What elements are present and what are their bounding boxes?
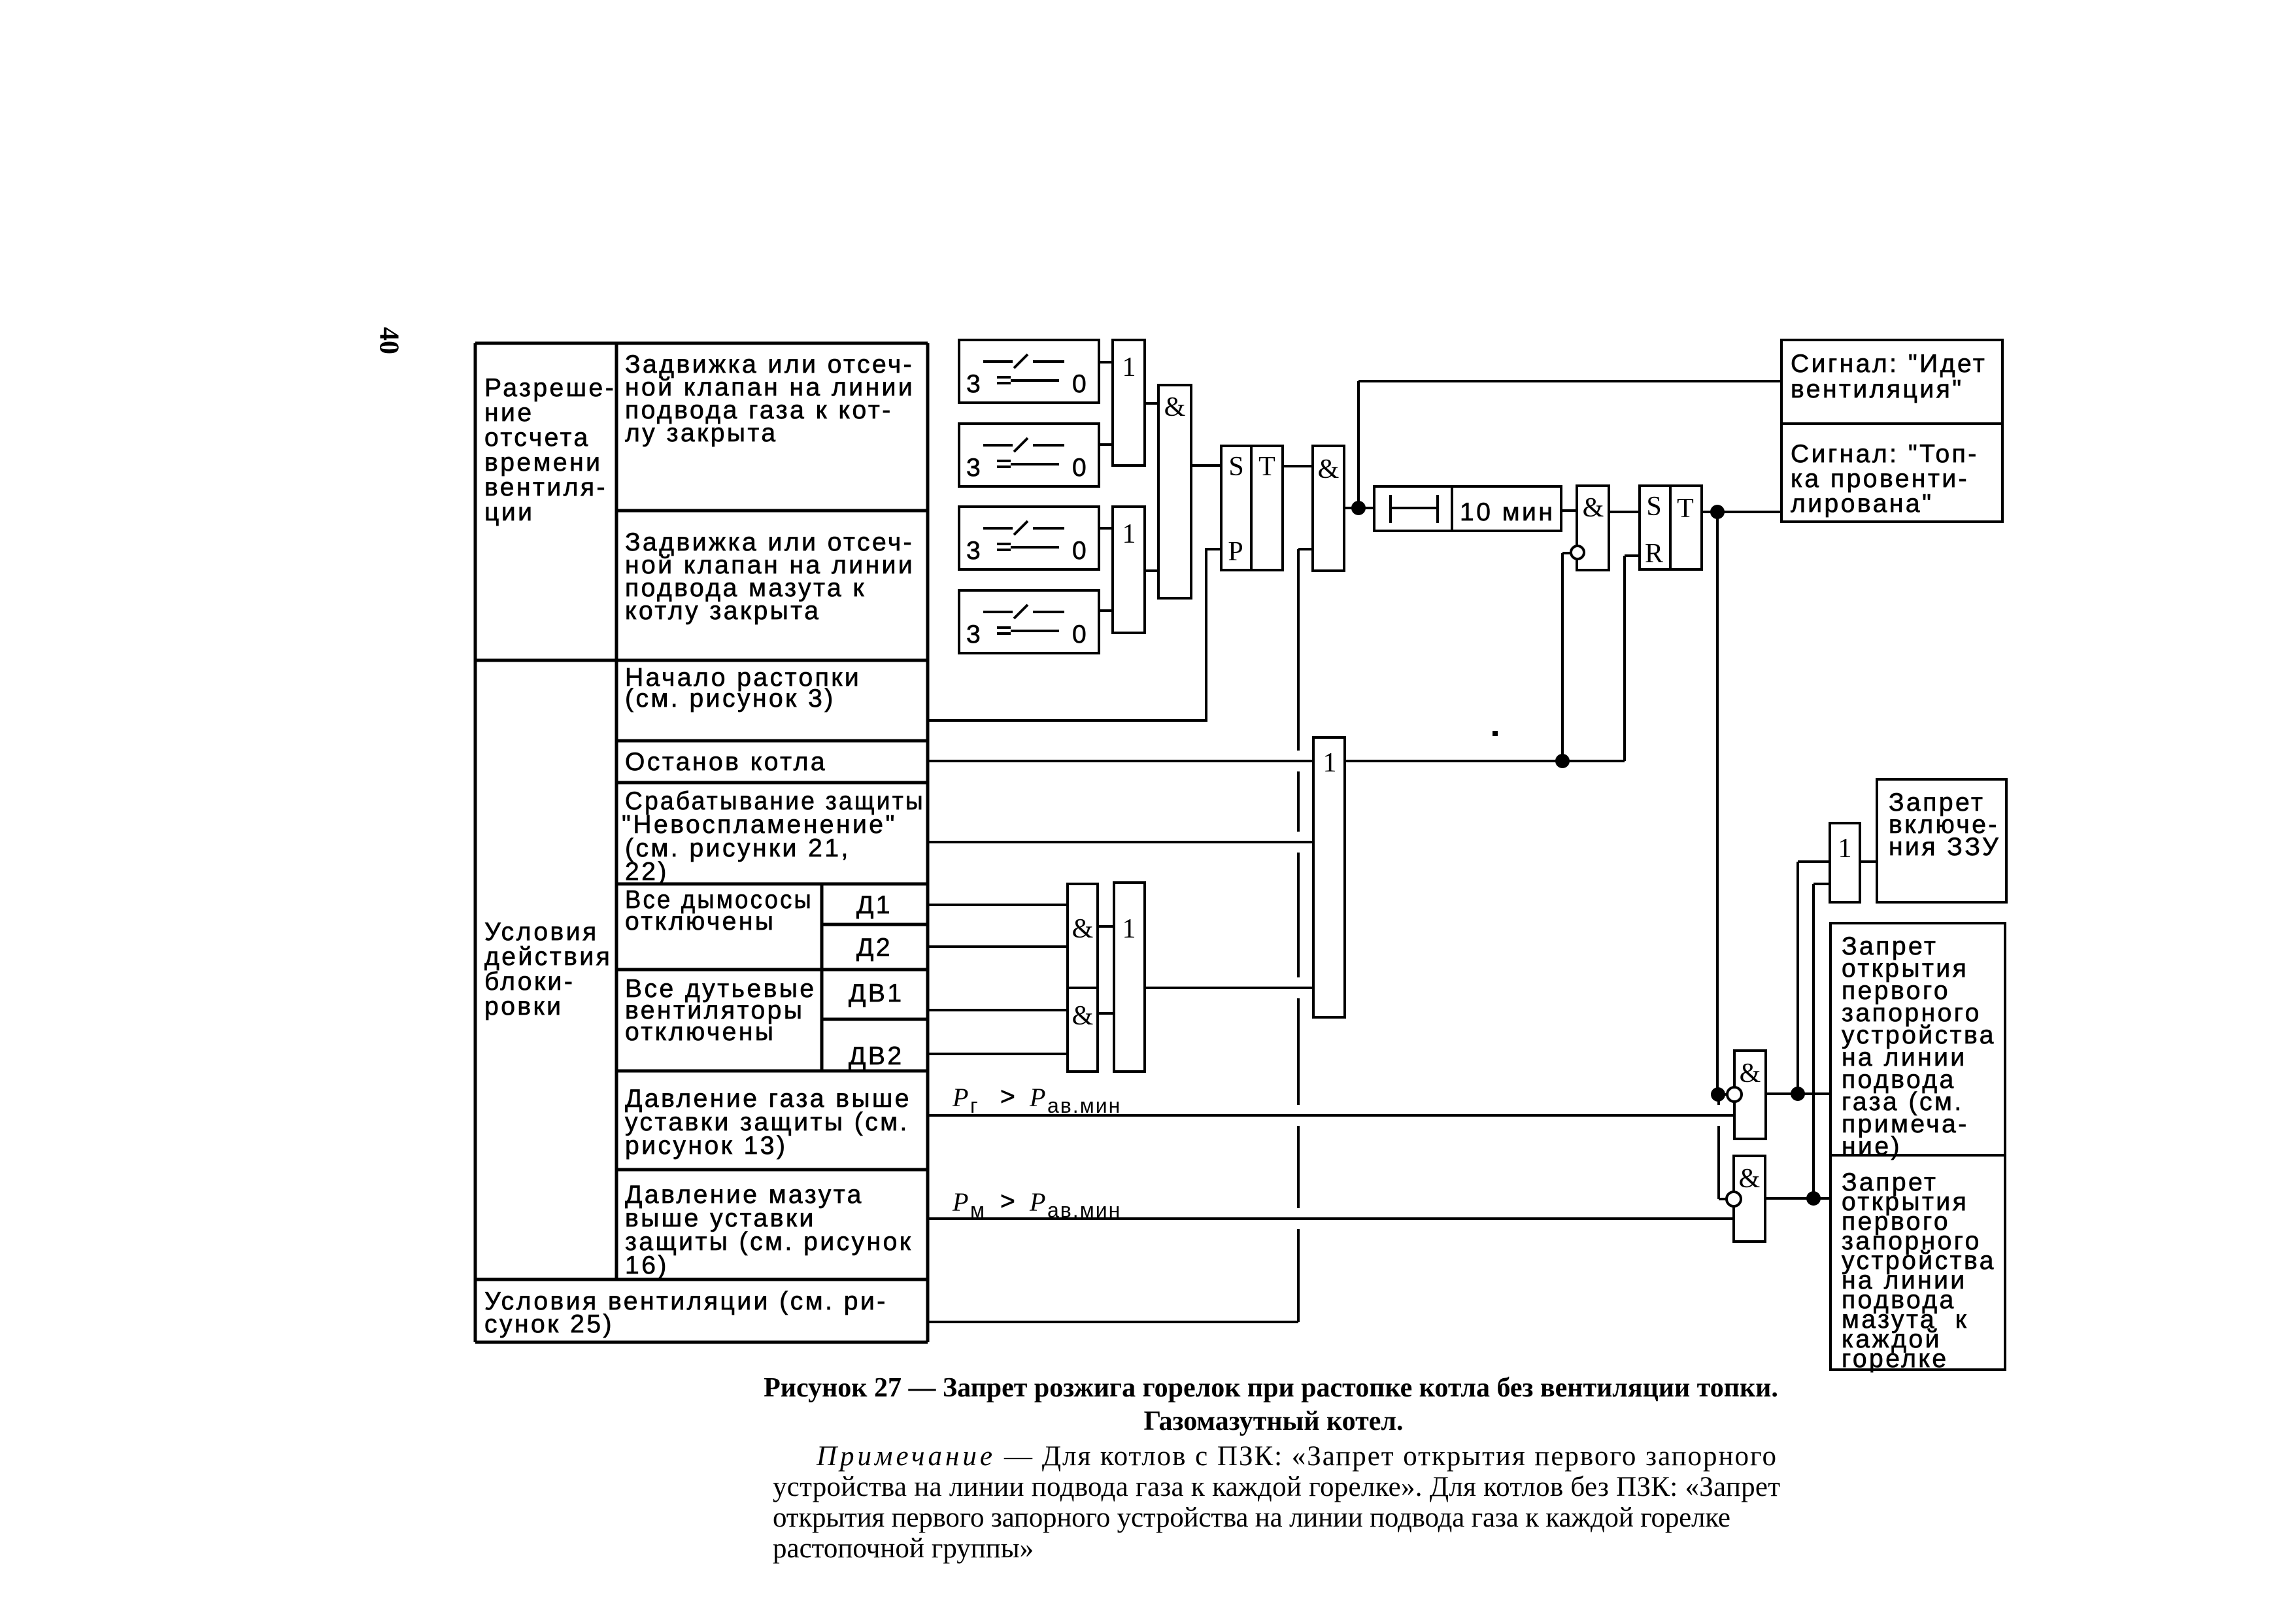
svg-text:S: S (1228, 452, 1243, 482)
svg-text:3: 3 (966, 537, 983, 565)
inverted input circle of DD10 (1727, 1087, 1742, 1102)
svg-text:1: 1 (1122, 519, 1136, 549)
cell: Останов котла (625, 748, 827, 776)
svg-text:ния ЗЗУ: ния ЗЗУ (1889, 833, 2000, 861)
svg-text:времени: времени (484, 448, 602, 477)
valve symbol contacts B1 (966, 354, 1088, 398)
svg-text:R: R (1645, 539, 1663, 569)
wire DD10 output (1766, 1092, 1830, 1095)
OR gate DD1 (gas valves) (1113, 340, 1145, 465)
svg-text:1: 1 (1323, 748, 1337, 778)
svg-text:ДВ1: ДВ1 (849, 979, 904, 1007)
svg-text:1: 1 (1122, 352, 1136, 382)
svg-text:&: & (1740, 1058, 1761, 1089)
valve symbol contacts B4 (966, 605, 1088, 649)
output box Запрет открытия первого запорного устройства газа (1830, 923, 2005, 1155)
svg-text:Рисунок 27 — Запрет розжига го: Рисунок 27 — Запрет розжига горелок при … (764, 1373, 1778, 1403)
svg-text:действия: действия (484, 943, 612, 971)
junction node on DD10 output (1791, 1087, 1805, 1101)
figure caption line 1 (764, 1373, 1778, 1403)
wire ДВ1 input (928, 1009, 1068, 1011)
valve symbol contacts B3 (966, 521, 1088, 565)
wire ДВ2 input (928, 1053, 1068, 1055)
svg-text:3: 3 (966, 454, 983, 482)
label P of T1 (1228, 537, 1243, 567)
wire DD9 out to DD6 (1145, 987, 1313, 989)
svg-text:вентиля-: вентиля- (484, 473, 607, 501)
valve position sensor box B3 (959, 507, 1099, 569)
label T of T2 (1677, 494, 1694, 524)
wire Pм to DD11 (928, 1217, 1734, 1220)
row: Условия вентиляции (484, 1287, 888, 1338)
svg-text:&: & (1164, 392, 1186, 422)
OR gate DD6 (blocking conditions) (1313, 737, 1345, 1017)
svg-text:P: P (1029, 1083, 1045, 1112)
label T of T1 (1258, 452, 1275, 482)
label & of DD11 (1739, 1164, 1761, 1194)
label 1 of DD6 (1323, 748, 1337, 778)
AND gate DD5 (1577, 486, 1609, 570)
wire node down to DD11 circle (1719, 1094, 1726, 1199)
OR gate DD9 (1114, 883, 1145, 1072)
svg-text:открытия первого запорного уст: открытия первого запорного устройства на… (773, 1502, 1730, 1533)
svg-text:Д2: Д2 (856, 934, 892, 962)
label Pг > Pав.мин (952, 1083, 1121, 1117)
svg-text:&: & (1739, 1164, 1761, 1194)
junction node on DD11 output (1806, 1191, 1821, 1206)
timer block 10 мин (1374, 486, 1561, 531)
label ДВ2 (849, 1042, 904, 1070)
svg-text:лу закрыта: лу закрыта (625, 419, 778, 447)
label & of DD8 upper (1072, 914, 1094, 944)
wire Д1 input (928, 904, 1068, 906)
svg-text:S: S (1646, 492, 1661, 522)
wire node up to signal Идет вентиляция (1358, 381, 1781, 508)
note paragraph (773, 1441, 1780, 1564)
label 1 of DD12 (1838, 834, 1852, 864)
svg-text:ДВ2: ДВ2 (849, 1042, 904, 1070)
svg-text:>: > (1000, 1187, 1017, 1215)
wire Pг to DD10 (928, 1114, 1734, 1117)
text Запрет включения ЗЗУ (1889, 788, 2000, 861)
svg-text:блоки-: блоки- (484, 968, 575, 996)
input condition table (475, 343, 928, 1342)
AND gate pair DD8 (Д and ДВ) (1068, 884, 1098, 1072)
svg-text:3: 3 (966, 370, 983, 398)
svg-text:P: P (1029, 1187, 1045, 1217)
wire Начало растопки to T1 P-input (928, 549, 1221, 720)
OR gate DD2 (mazut valves) (1113, 507, 1145, 633)
cell: Начало растопки (625, 664, 861, 713)
label S of T2 (1646, 492, 1661, 522)
svg-text:0: 0 (1072, 620, 1088, 649)
svg-text:10 мин: 10 мин (1460, 498, 1555, 526)
svg-text:сунок 25): сунок 25) (484, 1310, 614, 1338)
svg-text:T: T (1677, 494, 1694, 524)
svg-text:P: P (952, 1187, 968, 1217)
label Д2 (856, 934, 892, 962)
svg-text:ка провенти-: ка провенти- (1791, 465, 1969, 493)
valve position sensor box B2 (959, 424, 1099, 486)
svg-text:16): 16) (625, 1251, 669, 1279)
svg-text:Останов котла: Останов котла (625, 748, 827, 776)
svg-text:отключены: отключены (625, 1018, 775, 1046)
valve position sensor box B1 (959, 340, 1099, 403)
wire B4 to DD2 (1099, 609, 1113, 612)
wire Условия вентиляции to DD4 input (928, 549, 1313, 1322)
svg-text:Примечание: Примечание (816, 1441, 996, 1472)
svg-text:ав.мин: ав.мин (1047, 1094, 1121, 1117)
svg-text:ции: ции (484, 498, 534, 526)
svg-text:(см. рисунок 3): (см. рисунок 3) (625, 685, 835, 713)
junction node at DD10 input (1711, 1087, 1725, 1102)
output box Запрет включения ЗЗУ (1877, 779, 2006, 902)
wire DD12 out to ЗЗУ box (1860, 860, 1877, 863)
cell: Срабатывание защиты Невоспламенение (622, 787, 925, 886)
svg-text:рисунок 13): рисунок 13) (625, 1132, 787, 1160)
valve symbol contacts B2 (966, 438, 1088, 482)
svg-text:Условия: Условия (484, 918, 599, 946)
svg-text:вентиляция": вентиляция" (1791, 375, 1964, 403)
cell: Задвижка или отсечной клапан мазута закрыта (625, 528, 915, 625)
wire B3 to DD2 (1099, 527, 1113, 530)
svg-text:22): 22) (625, 858, 669, 886)
label 10 мин (1460, 498, 1555, 526)
wire Останов котла to DD6 (928, 760, 1313, 762)
svg-text:Разреше-: Разреше- (484, 374, 616, 402)
row header: Условия действия блокировки (484, 918, 612, 1021)
svg-text:0: 0 (1072, 370, 1088, 398)
svg-text:1: 1 (1838, 834, 1852, 864)
svg-text:3: 3 (966, 620, 983, 649)
svg-text:0: 0 (1072, 454, 1088, 482)
wire DD5 out to T2 S-input (1609, 511, 1640, 513)
timer-trigger block T1 (S T / P) (1221, 446, 1283, 570)
wire DD4 output to timer (1344, 507, 1375, 509)
svg-text:&: & (1072, 1001, 1094, 1031)
svg-text:1: 1 (1122, 914, 1136, 944)
label 1 of DD1 (1122, 352, 1136, 382)
row header: Разрешение отсчета времени вентиляции (484, 374, 616, 526)
AND gate DD4 (1313, 446, 1344, 571)
svg-text:&: & (1072, 914, 1094, 944)
svg-text:лирована": лирована" (1791, 490, 1933, 518)
junction node at T2 output (1710, 505, 1725, 519)
wire T1 out to DD4 (1283, 465, 1313, 467)
figure caption line 2 (1144, 1406, 1404, 1436)
inverted input circle of DD5 (1571, 546, 1584, 559)
svg-text:&: & (1318, 454, 1340, 484)
wire DD6 output (1345, 553, 1640, 761)
AND gate DD10 (gas prohibit) (1734, 1051, 1766, 1139)
valve position sensor box B4 (959, 590, 1099, 653)
svg-text:растопочной группы»: растопочной группы» (773, 1533, 1034, 1564)
svg-text:котлу закрыта: котлу закрыта (625, 597, 820, 625)
label R of T2 (1645, 539, 1663, 569)
label & of DD4 (1318, 454, 1340, 484)
inverted input circle of DD11 (1727, 1192, 1741, 1206)
svg-text:P: P (952, 1083, 968, 1112)
svg-text:устройства на линии подвода га: устройства на линии подвода газа к каждо… (773, 1472, 1780, 1502)
label & of DD3 (1164, 392, 1186, 422)
wire Срабатывание защиты to DD6 (928, 841, 1313, 843)
svg-text:Газомазутный котел.: Газомазутный котел. (1144, 1406, 1404, 1436)
output box Запрет открытия первого запорного устройства мазута (1830, 1155, 2005, 1370)
svg-text:&: & (1583, 493, 1604, 523)
AND gate DD3 (1158, 385, 1191, 598)
wire B1 to DD1 (1099, 361, 1113, 364)
svg-text:ние: ние (484, 399, 534, 427)
svg-text:отсчета: отсчета (484, 424, 590, 452)
label ДВ1 (849, 979, 904, 1007)
text Сигнал Топка провентилирована (1791, 440, 1979, 518)
junction node after DD4 (1351, 501, 1366, 515)
wire DD10 node up to DD12 (1798, 862, 1830, 1094)
svg-text:— Для котлов с ПЗК: «Запрет от: — Для котлов с ПЗК: «Запрет открытия пер… (1004, 1441, 1776, 1472)
svg-text:Сигнал: "Топ-: Сигнал: "Топ- (1791, 440, 1979, 468)
wire node to DD10 circle (1718, 1093, 1727, 1096)
svg-text:отключены: отключены (625, 907, 775, 936)
wire DD2 to DD3 (1145, 569, 1158, 572)
cell: Все дымососы отключены (625, 886, 813, 936)
scan speck artifact (1493, 731, 1498, 736)
svg-text:>: > (1000, 1083, 1017, 1111)
cell: Давление газа выше уставки защиты (625, 1085, 911, 1160)
svg-text:ровки: ровки (484, 992, 563, 1021)
label & of DD5 (1583, 493, 1604, 523)
wire DD11 output (1765, 1197, 1830, 1200)
OR gate DD12 (ЗЗУ prohibit) (1830, 823, 1860, 902)
signal box Топка провентилирована (1781, 424, 2002, 522)
cell: Давление мазута выше уставки защиты (625, 1181, 913, 1279)
svg-text:Д1: Д1 (856, 891, 892, 919)
svg-text:40: 40 (373, 327, 403, 354)
svg-text:P: P (1228, 537, 1243, 567)
trigger block T2 (S R / T) (1640, 486, 1702, 569)
wire DD3 out to T1 S-input (1191, 464, 1221, 467)
wire timer out to DD5 (1562, 509, 1577, 512)
wire T2 output down to DD7 (1716, 512, 1719, 1094)
label S of T1 (1228, 452, 1243, 482)
label 1 of DD9 (1122, 914, 1136, 944)
AND gate DD11 (mazut prohibit) (1734, 1156, 1765, 1242)
svg-text:горелке: горелке (1842, 1345, 1949, 1373)
label & of DD8 lower (1072, 1001, 1094, 1031)
page number 40 (rotated) (373, 327, 403, 354)
cell: Все дутьевые вентиляторы отключены (625, 975, 817, 1046)
svg-text:T: T (1258, 452, 1275, 482)
label Д1 (856, 891, 892, 919)
label 1 of DD2 (1122, 519, 1136, 549)
signal box Идет вентиляция (1781, 340, 2002, 424)
wire DD11 node up to DD12 (1813, 884, 1830, 1198)
svg-text:0: 0 (1072, 537, 1088, 565)
wire B2 to DD1 (1099, 443, 1113, 446)
text Сигнал Идет вентиляция (1791, 350, 1987, 403)
wire Д2 input (928, 945, 1068, 948)
wire DD8 lower to DD9 (1098, 1012, 1114, 1015)
text Запрет открытия (газ) (1842, 932, 1996, 1160)
label Pм > Pав.мин (952, 1187, 1121, 1222)
cell: Задвижка или отсечной клапан газа закрыта (625, 350, 915, 447)
junction node on DD6 output (1555, 754, 1570, 768)
wire DD1 to DD3 (1145, 402, 1158, 405)
svg-text:г: г (970, 1094, 979, 1117)
wire T2 out to signal Топка провентилирована (1702, 511, 1781, 513)
wire DD8 upper to DD9 (1098, 925, 1114, 928)
label & of DD10 (1740, 1058, 1761, 1089)
text Запрет открытия (мазут) (1842, 1168, 1996, 1373)
svg-text:Сигнал: "Идет: Сигнал: "Идет (1791, 350, 1987, 378)
